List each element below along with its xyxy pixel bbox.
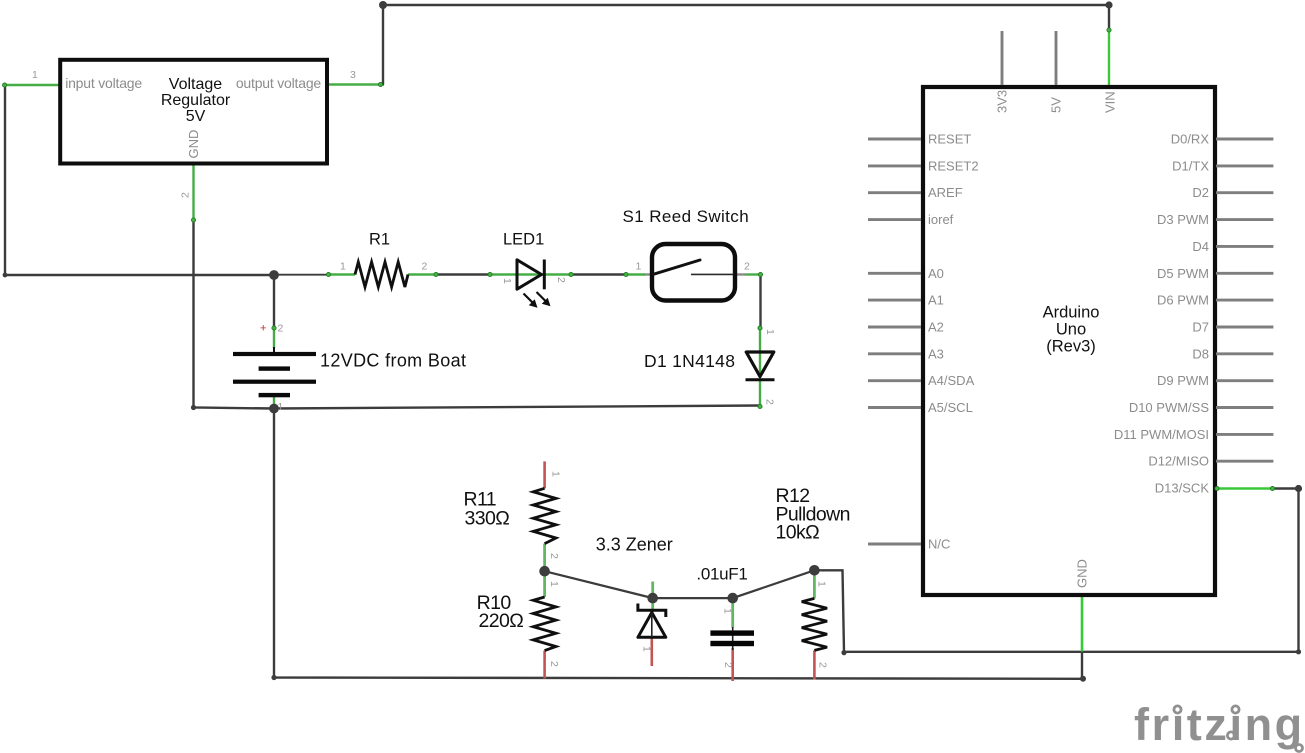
svg-text:1: 1: [501, 278, 513, 284]
svg-text:(Rev3): (Rev3): [1046, 338, 1096, 356]
svg-text:GND: GND: [1075, 559, 1090, 588]
svg-text:A1: A1: [928, 293, 944, 308]
svg-text:GND: GND: [186, 130, 201, 159]
svg-text:Uno: Uno: [1056, 321, 1086, 339]
svg-text:D8: D8: [1192, 346, 1209, 361]
svg-text:D3 PWM: D3 PWM: [1157, 212, 1209, 227]
svg-text:1: 1: [550, 471, 562, 477]
svg-text:S1 Reed Switch: S1 Reed Switch: [623, 207, 750, 226]
svg-text:2: 2: [278, 323, 284, 335]
svg-text:AREF: AREF: [928, 185, 963, 200]
svg-text:D11 PWM/MOSI: D11 PWM/MOSI: [1114, 427, 1209, 442]
svg-text:D2: D2: [1192, 185, 1209, 200]
svg-text:D12/MISO: D12/MISO: [1148, 454, 1209, 469]
svg-text:D1 1N4148: D1 1N4148: [644, 351, 735, 371]
svg-text:D5 PWM: D5 PWM: [1157, 266, 1209, 281]
svg-text:output voltage: output voltage: [236, 75, 322, 91]
svg-text:A0: A0: [928, 266, 944, 281]
svg-text:2: 2: [764, 399, 776, 405]
svg-text:VIN: VIN: [1103, 91, 1118, 113]
svg-text:2: 2: [422, 261, 428, 273]
svg-text:12VDC from Boat: 12VDC from Boat: [320, 351, 466, 371]
svg-text:1: 1: [548, 581, 560, 587]
svg-text:1: 1: [764, 329, 776, 335]
svg-text:D6 PWM: D6 PWM: [1157, 293, 1209, 308]
svg-text:D4: D4: [1192, 239, 1209, 254]
svg-text:2: 2: [817, 662, 829, 668]
svg-text:Arduino: Arduino: [1043, 304, 1100, 322]
svg-text:RESET2: RESET2: [928, 158, 979, 173]
svg-text:Voltage: Voltage: [169, 76, 222, 93]
svg-text:3.3 Zener: 3.3 Zener: [596, 535, 673, 555]
svg-text:1: 1: [641, 646, 653, 652]
svg-text:1: 1: [816, 581, 828, 587]
svg-text:D9 PWM: D9 PWM: [1157, 373, 1209, 388]
svg-text:A2: A2: [928, 320, 944, 335]
svg-text:2: 2: [548, 661, 560, 667]
svg-text:frıtzıng: frıtzıng: [1134, 699, 1305, 750]
svg-text:A4/SDA: A4/SDA: [928, 373, 975, 388]
svg-text:+: +: [260, 323, 266, 335]
svg-text:2: 2: [555, 277, 567, 283]
svg-text:D0/RX: D0/RX: [1171, 132, 1210, 147]
svg-text:220Ω: 220Ω: [479, 610, 524, 632]
svg-text:1: 1: [278, 401, 284, 413]
svg-text:2: 2: [548, 553, 560, 559]
svg-text:1: 1: [721, 608, 733, 614]
svg-text:10kΩ: 10kΩ: [776, 522, 820, 544]
svg-text:5V: 5V: [1049, 97, 1064, 113]
svg-text:1: 1: [340, 261, 346, 273]
svg-text:2: 2: [744, 261, 750, 273]
svg-text:A3: A3: [928, 346, 944, 361]
svg-text:D10 PWM/SS: D10 PWM/SS: [1129, 400, 1210, 415]
svg-text:N/C: N/C: [928, 536, 950, 551]
svg-text:ioref: ioref: [928, 212, 954, 227]
svg-text:5V: 5V: [186, 108, 206, 125]
svg-text:RESET: RESET: [928, 132, 971, 147]
svg-text:3V3: 3V3: [995, 90, 1010, 113]
svg-text:2: 2: [180, 192, 192, 198]
svg-text:D1/TX: D1/TX: [1172, 158, 1209, 173]
svg-text:3: 3: [350, 69, 356, 81]
svg-text:D13/SCK: D13/SCK: [1155, 481, 1210, 496]
svg-text:R1: R1: [369, 230, 390, 248]
svg-text:A5/SCL: A5/SCL: [928, 400, 973, 415]
svg-text:.01uF1: .01uF1: [696, 565, 747, 584]
svg-text:1: 1: [636, 261, 642, 273]
svg-text:330Ω: 330Ω: [465, 507, 510, 529]
svg-text:1: 1: [32, 69, 38, 81]
svg-text:Regulator: Regulator: [161, 92, 231, 109]
svg-text:input voltage: input voltage: [65, 75, 142, 91]
svg-text:2: 2: [722, 662, 734, 668]
svg-text:LED1: LED1: [503, 230, 544, 248]
svg-text:D7: D7: [1192, 320, 1209, 335]
